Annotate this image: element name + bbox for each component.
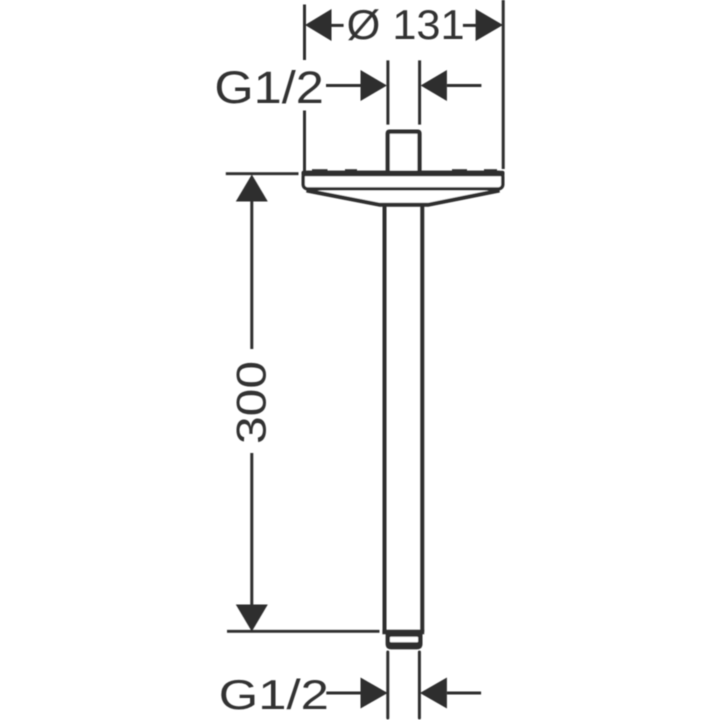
flange surface tick 2	[345, 169, 357, 173]
arrow pointing right (bottom G1/2)	[361, 678, 388, 709]
pipe left wall	[383, 205, 387, 632]
dimension line stub after top G1/2 text	[326, 84, 361, 87]
dimension line right stub (bottom G1/2)	[447, 692, 481, 695]
extension line left of dia 131 (lower segment to flange)	[303, 111, 306, 172]
arrow pointing left (top G1/2)	[421, 70, 447, 101]
extension line left (top G1/2)	[386, 60, 389, 124]
dimension line lower segment (300 dim)	[250, 453, 253, 605]
ceiling flange plate body	[303, 172, 503, 189]
conical transition below flange	[307, 191, 500, 205]
arrow pointing left (bottom G1/2)	[420, 678, 447, 709]
extension line top (300 dim)	[226, 172, 299, 175]
extension line right (bottom G1/2)	[418, 652, 421, 718]
dimension text dia 131	[347, 1, 465, 48]
end cap white slot	[390, 637, 418, 643]
svg-text:G1/2: G1/2	[214, 62, 324, 113]
extension line right (top G1/2)	[418, 60, 421, 124]
svg-text:G1/2: G1/2	[219, 671, 329, 718]
pipe bottom edge	[382, 630, 424, 634]
pipe right wall	[420, 205, 424, 632]
svg-text:300: 300	[228, 361, 275, 444]
extension line right of dia 131	[502, 0, 505, 169]
dimension text G1/2 top	[214, 62, 324, 113]
dimension line left stub (dia 131)	[331, 24, 344, 27]
arrow right (dia 131)	[476, 9, 503, 41]
arrow down (300 dim)	[236, 605, 268, 632]
flange surface tick 3	[452, 169, 467, 173]
extension line bottom (300 dim)	[227, 630, 380, 633]
flange top thick edge	[302, 171, 505, 177]
dimension line right stub (dia 131)	[463, 24, 476, 27]
dimension text G1/2 bottom	[219, 671, 329, 718]
bottom threaded end cap	[386, 633, 423, 649]
flange surface tick 1	[312, 169, 328, 173]
extension line left of dia 131 (upper segment)	[303, 5, 306, 61]
extension line left (bottom G1/2)	[386, 652, 389, 718]
dimension text 300 rotated	[228, 361, 275, 444]
arrow left (dia 131)	[305, 9, 332, 41]
arrow pointing right (top G1/2)	[361, 70, 387, 101]
threaded nipple (top G1/2 connector)	[388, 132, 420, 174]
svg-text:Ø 131: Ø 131	[347, 1, 465, 48]
dimension line stub after bottom G1/2 text	[326, 692, 361, 695]
dimension line upper segment (300 dim)	[250, 201, 253, 349]
arrow up (300 dim)	[236, 175, 268, 202]
dimension line right stub (top G1/2)	[447, 84, 482, 87]
flange surface tick 4	[484, 169, 497, 173]
